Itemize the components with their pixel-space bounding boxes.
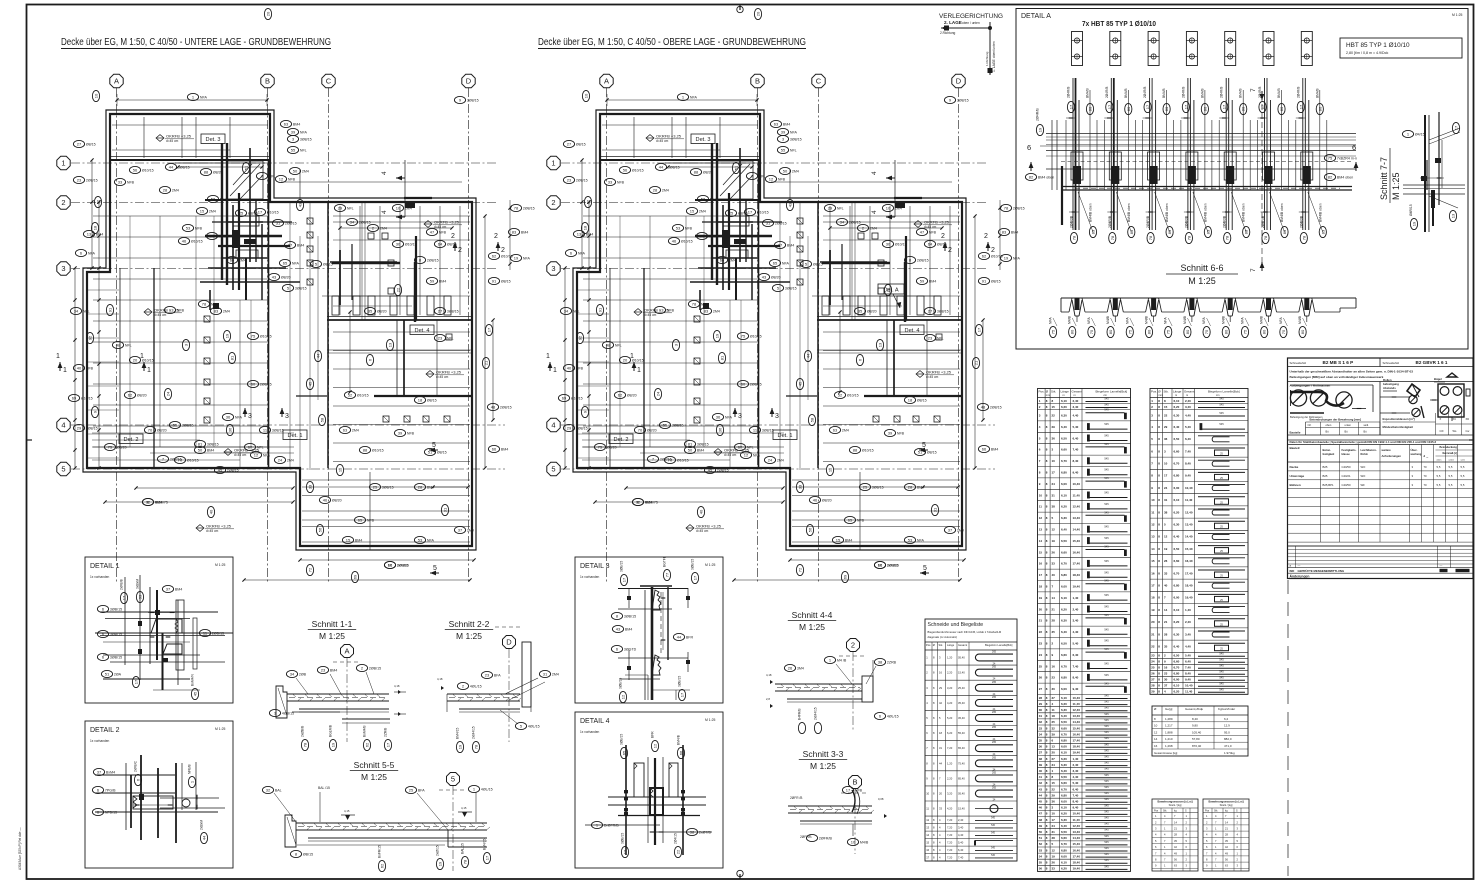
svg-text:25: 25 (863, 485, 868, 490)
svg-text:43: 43 (616, 627, 621, 632)
svg-text:81: 81 (688, 442, 693, 447)
svg-text:12: 12 (254, 453, 259, 458)
svg-text:545: 545 (1104, 834, 1109, 838)
svg-text:2Ø4R/B: 2Ø4R/B (1220, 87, 1224, 98)
svg-text:2Ø8/15: 2Ø8/15 (576, 179, 588, 183)
svg-text:19: 19 (1039, 596, 1043, 600)
svg-text:72: 72 (798, 567, 803, 572)
svg-text:Ø8/15: Ø8/15 (991, 280, 1001, 284)
svg-text:65,40: 65,40 (958, 746, 965, 750)
svg-text:6,80: 6,80 (1061, 471, 1067, 475)
floor plan 2 callout bubbles (558, 8, 1024, 582)
svg-text:25: 25 (409, 788, 414, 793)
svg-text:NFL: NFL (125, 344, 132, 348)
svg-text:BM4: BM4 (355, 539, 362, 543)
svg-text:BM4: BM4 (427, 486, 434, 490)
svg-text:NFL: NFL (615, 344, 622, 348)
svg-text:Länge: Länge (1173, 390, 1182, 394)
svg-text:22: 22 (676, 849, 681, 854)
svg-text:6,40: 6,40 (958, 848, 964, 852)
svg-text:66: 66 (720, 258, 725, 263)
svg-text:2Ø8/15: 2Ø8/15 (86, 179, 98, 183)
svg-text:7: 7 (1250, 88, 1257, 92)
svg-text:18: 18 (1052, 714, 1056, 718)
svg-text:8,40: 8,40 (1073, 800, 1079, 804)
svg-text:17: 17 (1039, 573, 1043, 577)
svg-text:BM4: BM4 (697, 449, 704, 453)
svg-text:NFB/B: NFB/B (188, 763, 192, 774)
svg-text:545: 545 (1104, 773, 1109, 777)
svg-text:NFA: NFA (578, 252, 586, 256)
svg-text:6,50: 6,50 (1061, 720, 1067, 724)
floor plan 1 outer walls (83, 110, 476, 550)
svg-text:23: 23 (321, 668, 326, 673)
svg-text:17: 17 (1052, 471, 1056, 475)
svg-text:1,20: 1,20 (947, 656, 953, 660)
svg-text:NFL: NFL (300, 149, 307, 153)
svg-text:M 1:25: M 1:25 (361, 772, 387, 782)
svg-text:36: 36 (1052, 800, 1056, 804)
svg-text:6,60: 6,60 (1061, 726, 1067, 730)
svg-text:M 1:25: M 1:25 (456, 631, 482, 641)
svg-text:M4/B: M4/B (1145, 315, 1149, 324)
floor plan 1 grid axes (57, 74, 505, 582)
svg-text:NFL: NFL (759, 175, 766, 179)
svg-text:OKRFB +3,25: OKRFB +3,25 (436, 370, 462, 375)
svg-text:17: 17 (1151, 584, 1155, 588)
svg-text:2Ø8/15: 2Ø8/15 (86, 427, 98, 431)
svg-text:14: 14 (1151, 547, 1155, 551)
svg-text:1,20: 1,20 (947, 761, 953, 765)
svg-text:NFA: NFA (1049, 317, 1053, 324)
svg-text:30: 30 (1052, 687, 1056, 691)
svg-text:58: 58 (320, 417, 325, 422)
svg-text:BAL: BAL (275, 789, 282, 793)
svg-text:545: 545 (1104, 397, 1109, 401)
svg-text:20: 20 (756, 11, 761, 16)
svg-text:BM4: BM4 (207, 449, 214, 453)
svg-text:8,40: 8,40 (1192, 717, 1198, 721)
svg-text:27: 27 (77, 142, 82, 147)
floor plan 2 drop panel squares (694, 218, 942, 423)
svg-text:24: 24 (1039, 653, 1043, 657)
svg-text:8,40: 8,40 (1073, 459, 1079, 463)
svg-text:BM4/15: BM4/15 (456, 727, 460, 739)
svg-text:NFA: NFA (917, 539, 925, 543)
svg-text:Wo: Wo (1453, 429, 1457, 433)
svg-text:30: 30 (396, 242, 401, 247)
svg-text:83: 83 (214, 309, 219, 314)
svg-text:6,30: 6,30 (1061, 619, 1067, 623)
svg-text:17: 17 (1260, 104, 1265, 109)
svg-text:55: 55 (663, 423, 668, 428)
floor plan 2 dimension chains (563, 94, 984, 582)
svg-text:Ø4/15: Ø4/15 (1415, 133, 1425, 137)
svg-text:Länge: Länge (1061, 390, 1070, 394)
svg-text:Stück / [kg]: Stück / [kg] (1169, 803, 1182, 807)
svg-text:31: 31 (543, 672, 548, 677)
svg-text:3,40: 3,40 (1185, 405, 1191, 409)
svg-text:2: 2 (948, 247, 952, 254)
svg-text:60: 60 (248, 445, 253, 450)
svg-text:19,40: 19,40 (1073, 867, 1081, 871)
svg-text:80: 80 (1070, 329, 1075, 334)
svg-text:7,40: 7,40 (1073, 664, 1079, 668)
svg-text:7,40: 7,40 (1073, 793, 1079, 797)
svg-text:17,40: 17,40 (1185, 571, 1193, 575)
svg-text:29: 29 (338, 206, 343, 211)
svg-text:545: 545 (1104, 422, 1109, 426)
svg-text:Ø8/20: Ø8/20 (703, 171, 713, 175)
svg-text:12: 12 (623, 849, 628, 854)
svg-text:Bügel: Bügel (1434, 377, 1442, 381)
svg-text:13: 13 (87, 232, 92, 237)
svg-text:D: D (956, 77, 962, 86)
svg-text:80: 80 (1279, 106, 1284, 111)
svg-text:53: 53 (908, 538, 913, 543)
svg-text:545: 545 (1104, 593, 1109, 597)
svg-text:57,80: 57,80 (1192, 737, 1200, 741)
svg-text:19: 19 (458, 744, 463, 749)
svg-text:24: 24 (1151, 660, 1155, 664)
svg-text:5,5: 5,5 (1437, 474, 1441, 478)
svg-text:Gesamt: Gesamt (1072, 390, 1083, 394)
svg-text:22: 22 (1052, 787, 1056, 791)
svg-text:3Ø8/15: 3Ø8/15 (872, 486, 884, 490)
svg-text:34: 34 (1052, 763, 1056, 767)
svg-text:40: 40 (699, 509, 704, 514)
DETAIL A filigree slab elements top row (1072, 32, 1313, 66)
svg-text:BFA: BFA (494, 674, 501, 678)
svg-text:17: 17 (258, 210, 263, 215)
svg-text:M 1:25: M 1:25 (1188, 276, 1216, 286)
svg-text:NFA: NFA (753, 454, 761, 458)
svg-text:BM4: BM4 (297, 244, 304, 248)
svg-text:545: 545 (1104, 536, 1109, 540)
svg-text:33: 33 (1164, 571, 1168, 575)
svg-text:6,40: 6,40 (1073, 436, 1079, 440)
fold mark dashed line below title block (1287, 580, 1289, 876)
svg-text:56: 56 (1039, 867, 1043, 871)
svg-text:Ø8/15: Ø8/15 (427, 399, 437, 403)
svg-text:471,0: 471,0 (1224, 744, 1232, 748)
svg-text:545: 545 (1104, 403, 1109, 407)
svg-text:15: 15 (690, 209, 695, 214)
svg-text:3,40: 3,40 (1073, 405, 1079, 409)
svg-text:Schnitt 5-5: Schnitt 5-5 (354, 760, 395, 770)
svg-text:545: 545 (1219, 663, 1224, 667)
svg-text:Gesamtmasse [kg]: Gesamtmasse [kg] (1154, 751, 1178, 755)
svg-text:265: 265 (992, 711, 997, 714)
svg-text:6,40: 6,40 (1174, 425, 1180, 429)
svg-text:M 1:25: M 1:25 (705, 718, 715, 722)
Schnitt 1-1 section (269, 619, 406, 751)
svg-text:5,5: 5,5 (1461, 483, 1465, 487)
svg-text:32: 32 (1052, 726, 1056, 730)
svg-text:545: 545 (1104, 864, 1109, 868)
svg-text:75: 75 (1166, 329, 1171, 334)
svg-text:55: 55 (173, 423, 178, 428)
svg-text:3ØB/15: 3ØB/15 (624, 615, 636, 619)
svg-text:BM4: BM4 (625, 628, 632, 632)
svg-text:2Ø8/15: 2Ø8/15 (775, 222, 787, 226)
svg-text:44: 44 (939, 761, 942, 765)
svg-text:545: 545 (1104, 468, 1109, 472)
svg-text:35: 35 (368, 309, 373, 314)
svg-text:2Ø8/15: 2Ø8/15 (523, 207, 535, 211)
svg-text:wachung: wachung (1411, 453, 1422, 456)
svg-text:35: 35 (1164, 645, 1168, 649)
svg-text:5: 5 (922, 442, 926, 449)
svg-text:265: 265 (992, 756, 997, 759)
svg-text:Schnitt 3-3: Schnitt 3-3 (803, 749, 844, 759)
svg-text:5,5: 5,5 (1437, 465, 1441, 469)
svg-text:78: 78 (1148, 235, 1153, 240)
svg-text:14,40: 14,40 (1073, 836, 1081, 840)
svg-text:2Ø4R/B: 2Ø4R/B (1181, 87, 1185, 98)
svg-text:265: 265 (992, 741, 997, 744)
svg-text:BxM4/N: BxM4/N (191, 674, 195, 686)
svg-text:545: 545 (1104, 662, 1109, 666)
svg-text:ØB/15: ØB/15 (303, 853, 313, 857)
svg-text:34: 34 (350, 220, 355, 225)
svg-text:10,40: 10,40 (1073, 696, 1081, 700)
svg-text:1: 1 (63, 367, 67, 374)
svg-text:10,40: 10,40 (1185, 684, 1193, 688)
svg-text:545: 545 (1219, 681, 1224, 685)
svg-text:1x vorhanden: 1x vorhanden (580, 730, 600, 734)
svg-text:26: 26 (1052, 861, 1056, 865)
svg-text:DETAIL A: DETAIL A (1021, 13, 1051, 20)
svg-text:65: 65 (358, 518, 363, 523)
svg-text:88: 88 (694, 170, 699, 175)
svg-text:unten: unten (1345, 423, 1352, 427)
svg-text:13,40: 13,40 (1073, 830, 1081, 834)
svg-text:80: 80 (1185, 329, 1190, 334)
svg-text:2: 2 (551, 198, 555, 207)
svg-text:1. LAGE oben/unten: 1. LAGE oben/unten (992, 41, 996, 72)
svg-text:78: 78 (1110, 235, 1115, 240)
svg-text:6,40: 6,40 (1185, 660, 1191, 664)
svg-text:NFL: NFL (220, 198, 227, 202)
svg-text:16: 16 (1164, 666, 1168, 670)
svg-text:NFA: NFA (782, 262, 790, 266)
svg-text:78: 78 (1225, 235, 1230, 240)
svg-text:2Ø8/15: 2Ø8/15 (917, 259, 929, 263)
svg-text:NFA: NFA (725, 416, 733, 420)
svg-text:Gesamt,Zbqk: Gesamt,Zbqk (1185, 707, 1204, 711)
svg-text:60: 60 (741, 382, 746, 387)
svg-text:2: 2 (61, 198, 65, 207)
svg-text:Ø8/15: Ø8/15 (813, 263, 823, 267)
svg-text:11,40: 11,40 (1073, 702, 1081, 706)
svg-text:18: 18 (1039, 585, 1043, 589)
svg-text:2M4: 2M4 (380, 227, 387, 231)
svg-text:2: 2 (451, 233, 455, 240)
svg-text:Schneidehül: Schneidehül (1383, 361, 1400, 365)
svg-text:2ØFR/B: 2ØFR/B (800, 835, 812, 839)
svg-text:Ø8/20: Ø8/20 (377, 310, 387, 314)
svg-text:17: 17 (1183, 104, 1188, 109)
svg-text:4: 4 (551, 421, 555, 430)
bar schedule table left (Positionen 1-55) (1038, 389, 1131, 872)
svg-text:B: B (755, 77, 760, 86)
svg-text:6,60: 6,60 (1174, 559, 1180, 563)
svg-text:13: 13 (1151, 535, 1155, 539)
svg-text:31: 31 (939, 746, 942, 750)
svg-text:6,00: 6,00 (1061, 687, 1067, 691)
svg-text:18: 18 (583, 225, 588, 230)
svg-text:Det. 3: Det. 3 (696, 137, 711, 143)
svg-text:XC: XC (1453, 417, 1457, 421)
svg-text:52: 52 (1039, 842, 1043, 846)
svg-text:80: 80 (1147, 329, 1152, 334)
svg-text:10: 10 (926, 792, 929, 796)
svg-text:545: 545 (1104, 639, 1109, 643)
svg-text:BM4/B: BM4/B (1086, 88, 1090, 98)
svg-text:4ØL/15: 4ØL/15 (481, 788, 493, 792)
svg-text:80: 80 (1241, 106, 1246, 111)
svg-text:1,210: 1,210 (1165, 737, 1173, 741)
svg-text:3: 3 (285, 413, 289, 420)
svg-text:3Ø8/15: 3Ø8/15 (207, 443, 219, 447)
svg-text:19,40: 19,40 (1073, 585, 1081, 589)
svg-text:24: 24 (166, 391, 171, 396)
svg-text:6,60: 6,60 (1061, 836, 1067, 840)
svg-text:NFB: NFB (407, 432, 415, 436)
DETAIL 3 box (575, 556, 723, 703)
svg-text:1,40: 1,40 (1073, 757, 1079, 761)
svg-text:44: 44 (1039, 793, 1043, 797)
svg-text:NFA: NFA (1013, 257, 1021, 261)
svg-text:Ø8/20: Ø8/20 (332, 499, 342, 503)
svg-text:62: 62 (982, 254, 987, 259)
svg-text:55: 55 (781, 148, 786, 153)
svg-text:2,20: 2,20 (947, 776, 953, 780)
svg-text:78: 78 (1072, 235, 1077, 240)
svg-text:545: 545 (1104, 852, 1109, 856)
svg-text:2: 2 (984, 233, 988, 240)
svg-text:33: 33 (1052, 562, 1056, 566)
svg-text:NFB: NFB (288, 178, 296, 182)
svg-text:2M4: 2M4 (870, 227, 877, 231)
svg-text:NFA: NFA (200, 96, 208, 100)
svg-text:46: 46 (672, 239, 677, 244)
svg-text:5,5: 5,5 (1449, 465, 1453, 469)
svg-text:69: 69 (843, 574, 848, 579)
svg-text:Ge[g]: Ge[g] (1165, 707, 1173, 711)
svg-text:Det. 1: Det. 1 (288, 433, 303, 439)
svg-text:2Ø8/15: 2Ø8/15 (227, 469, 239, 473)
svg-text:19: 19 (1052, 854, 1056, 858)
svg-text:28: 28 (1052, 619, 1056, 623)
svg-text:545: 545 (1104, 858, 1109, 862)
small parts table A (1152, 799, 1198, 871)
svg-text:mm: mm (1158, 394, 1162, 397)
svg-text:6,40: 6,40 (1061, 528, 1067, 532)
svg-text:3: 3 (248, 413, 252, 420)
svg-text:Schneidehül: Schneidehül (1290, 361, 1307, 365)
svg-text:6,70: 6,70 (1061, 732, 1067, 736)
svg-text:33: 33 (939, 807, 942, 811)
svg-text:Ø8/20: Ø8/20 (137, 394, 147, 398)
svg-text:OKRFB +3,25: OKRFB +3,25 (166, 134, 192, 139)
svg-text:WF: WF (1361, 483, 1366, 487)
svg-text:Bü: Bü (1345, 430, 1349, 434)
svg-text:38: 38 (1164, 510, 1168, 514)
svg-text:3: 3 (551, 264, 555, 273)
svg-text:82: 82 (1029, 175, 1034, 180)
svg-text:3,40: 3,40 (1185, 632, 1191, 636)
svg-text:38: 38 (690, 830, 695, 835)
svg-text:Ø10/15: Ø10/15 (677, 459, 689, 463)
svg-text:Anforderungen: Anforderungen (1382, 454, 1402, 458)
svg-text:545: 545 (1104, 767, 1109, 771)
svg-text:18: 18 (93, 225, 98, 230)
svg-text:Ø8/20: Ø8/20 (213, 171, 223, 175)
Schnitt 3-3 section (788, 749, 887, 854)
svg-text:B2 MB S 1 6 P: B2 MB S 1 6 P (1323, 360, 1354, 365)
svg-text:48: 48 (981, 405, 986, 410)
svg-text:6,30: 6,30 (1061, 708, 1067, 712)
svg-text:17: 17 (1454, 125, 1459, 130)
svg-text:12,9: 12,9 (1224, 724, 1230, 728)
svg-text:31: 31 (1164, 498, 1168, 502)
svg-text:545: 545 (1104, 579, 1109, 583)
svg-text:6,40: 6,40 (1061, 425, 1067, 429)
svg-text:GEPRÜFTE MENGENERMITTLUNG: GEPRÜFTE MENGENERMITTLUNG (1298, 568, 1345, 573)
svg-text:35,40: 35,40 (958, 701, 965, 705)
floor plan 1 callout bubbles (68, 8, 534, 582)
svg-text:7PG/B: 7PG/B (105, 789, 116, 793)
svg-text:Pos.: Pos. (1039, 390, 1045, 394)
svg-text:7xBZR4 m-n: 7xBZR4 m-n (1337, 157, 1357, 161)
svg-text:9,40: 9,40 (1185, 678, 1191, 682)
svg-text:5,40: 5,40 (1073, 425, 1079, 429)
svg-text:10: 10 (584, 93, 589, 98)
svg-text:83: 83 (512, 230, 517, 235)
svg-text:2M4: 2M4 (467, 529, 474, 533)
svg-text:mm: mm (1046, 394, 1050, 397)
svg-text:81: 81 (230, 355, 235, 360)
svg-text:37: 37 (1164, 684, 1168, 688)
svg-text:63: 63 (774, 122, 779, 127)
svg-text:12,40: 12,40 (1073, 505, 1081, 509)
title block roll diagram (1290, 385, 1373, 419)
svg-text:NFA: NFA (790, 131, 798, 135)
svg-text:10: 10 (1164, 462, 1168, 466)
svg-text:3Ø8/15: 3Ø8/15 (295, 287, 307, 291)
svg-text:19,40: 19,40 (1185, 596, 1193, 600)
svg-text:4ØL/15: 4ØL/15 (528, 725, 540, 729)
svg-text:NFL: NFL (211, 303, 218, 307)
svg-text:NFA: NFA (292, 262, 300, 266)
svg-text:1: 1 (553, 367, 557, 374)
svg-text:2xØ/15: 2xØ/15 (436, 845, 440, 856)
svg-text:2Ø4R/B: 2Ø4R/B (1036, 108, 1040, 121)
svg-text:DETAIL 2: DETAIL 2 (90, 727, 120, 734)
svg-text:m: m (1186, 394, 1188, 397)
svg-text:6,80: 6,80 (1061, 676, 1067, 680)
svg-text:Ø10/15: Ø10/15 (187, 459, 199, 463)
svg-text:47: 47 (430, 230, 435, 235)
svg-text:05,40: 05,40 (958, 656, 965, 660)
Schnitt 5-5 section (262, 760, 492, 872)
svg-text:BM4/B oben: BM4/B oben (1127, 203, 1131, 222)
svg-text:92: 92 (578, 335, 583, 340)
svg-text:4,40: 4,40 (1073, 630, 1079, 634)
svg-text:545: 545 (1219, 669, 1224, 673)
